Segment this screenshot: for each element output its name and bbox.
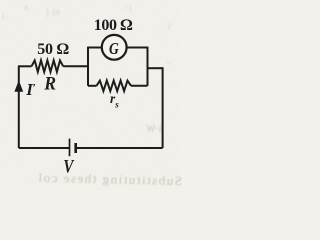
wire: right vertical rail [162, 67, 164, 148]
wire: bottom branch left segment [88, 85, 97, 87]
wire: left vertical rail [18, 66, 20, 148]
svg-text:50 Ω: 50 Ω [37, 41, 68, 58]
svg-text:R: R [43, 73, 56, 94]
svg-text:G: G [109, 39, 119, 58]
battery V: negative (short) plate [74, 143, 77, 153]
wire: R to parallel-box left vertical [63, 65, 88, 67]
svg-text:V: V [63, 158, 74, 178]
current arrow I' head [14, 80, 23, 92]
wire: bottom left horizontal from rail to battery [19, 147, 70, 149]
wire: bottom right horizontal to battery [76, 147, 163, 149]
wire: top branch left segment [88, 47, 102, 49]
svg-text:100 Ω: 100 Ω [94, 17, 132, 34]
wire: bottom branch right segment [131, 85, 148, 87]
wire: jog from box to right rail [148, 67, 163, 69]
galvanometer G (100 ohm) circle [102, 35, 127, 60]
decorative bleed-through, not labelled [24, 2, 29, 12]
wire: top branch right segment [127, 47, 148, 49]
resistor R1 (R, 50 ohm) zigzag [32, 60, 64, 72]
resistor R2 (r_s shunt) zigzag [97, 81, 132, 92]
battery V: positive (long) plate [69, 139, 71, 157]
wire: parallel box right vertical [147, 47, 149, 86]
wire: parallel box left vertical [87, 47, 89, 86]
wire: top-left horizontal from rail to R [18, 65, 32, 67]
decorative paper grain [0, 0, 182, 190]
